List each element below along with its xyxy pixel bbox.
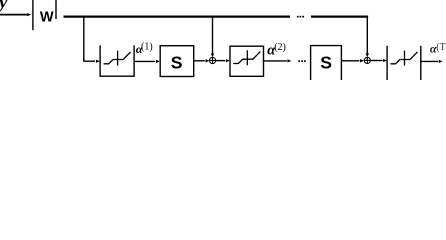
wire drop 2 from rail into adder 1 bbox=[212, 17, 214, 54]
svg-text:W: W bbox=[40, 9, 54, 25]
wire top rail dots ... bbox=[297, 16, 299, 18]
wire S1 to adder 1 bbox=[194, 60, 205, 62]
svg-text:(T): (T) bbox=[436, 42, 446, 53]
svg-text:S: S bbox=[320, 52, 332, 72]
wire drop 1 with elbow into first nonlinearity bbox=[84, 17, 95, 61]
nonlinearity icon 3 bbox=[391, 52, 418, 64]
adder 1 bbox=[209, 57, 215, 63]
wire output arrow bbox=[421, 60, 438, 62]
wire nonlin1 to S1 bbox=[135, 60, 156, 62]
nonlinearity icon 1 bbox=[104, 52, 131, 64]
nonlinearity box 2 (full) bbox=[230, 46, 264, 76]
nonlinearity box 3 (open top, sides run off image) bbox=[386, 46, 388, 80]
wire top rail right span bbox=[311, 16, 368, 18]
wire adder 1 to nonlinearity 2 bbox=[216, 60, 226, 62]
svg-text:S: S bbox=[171, 52, 183, 72]
wire nonlin2 output arrow bbox=[264, 60, 287, 62]
block W bbox=[32, 0, 34, 30]
wire top rail left span bbox=[64, 16, 291, 18]
block S2 (no bottom edge, sides run off image) bbox=[310, 46, 312, 80]
wire rail corner drop into adder 2 bbox=[366, 17, 368, 55]
block S1 bbox=[160, 46, 194, 77]
adder 2 bbox=[364, 57, 370, 63]
wire input arrow into W bbox=[0, 14, 27, 16]
wire S2 to adder 2 bbox=[342, 60, 360, 62]
svg-text:y: y bbox=[0, 0, 8, 13]
bottom dots ... bbox=[298, 60, 300, 62]
svg-text:(2): (2) bbox=[274, 42, 286, 53]
nonlinearity icon 2 bbox=[233, 52, 260, 64]
nonlinearity box 1 (open top) bbox=[99, 45, 101, 76]
wire adder 2 to nonlinearity 3 bbox=[370, 60, 382, 62]
svg-text:(1): (1) bbox=[141, 42, 153, 53]
